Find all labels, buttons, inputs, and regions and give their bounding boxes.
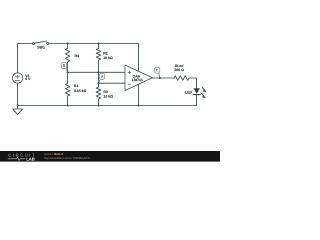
wire left rail bottom — [17, 83, 19, 106]
LED emission arrow 2 — [202, 94, 205, 97]
svg-text:R2: R2 — [103, 51, 108, 55]
junction R2 top — [98, 43, 100, 45]
probe B — [61, 63, 66, 69]
switch SW1 — [33, 43, 35, 45]
svg-text:LAB: LAB — [26, 157, 35, 162]
CircuitLab logo — [8, 152, 36, 161]
wire top rail — [49, 44, 139, 72]
svg-text:0.15 kΩ: 0.15 kΩ — [74, 89, 87, 93]
svg-text:266 Ω: 266 Ω — [174, 68, 184, 72]
op-amp U1 triangle — [125, 65, 153, 91]
junction R1 bottom — [67, 105, 69, 107]
resistor R4 — [65, 44, 70, 73]
watermark bar — [0, 151, 220, 162]
junction R4 top — [67, 43, 69, 45]
junction opamp V- bottom — [138, 105, 140, 107]
junction R3 bottom — [98, 105, 100, 107]
probe B tail — [66, 68, 67, 72]
probe C — [155, 67, 160, 73]
resistor R2 — [96, 44, 101, 84]
voltage source V1 — [12, 73, 22, 83]
svg-text:R1: R1 — [74, 84, 79, 88]
svg-text:SW1: SW1 — [37, 46, 45, 50]
svg-text:LED: LED — [185, 91, 192, 95]
junction ground — [17, 105, 19, 107]
ground — [13, 106, 23, 115]
resistor R1 — [65, 72, 70, 105]
probe C tail — [159, 73, 160, 78]
resistor R3 — [96, 83, 101, 105]
junction node1 — [67, 71, 69, 73]
probe A — [99, 73, 104, 79]
wire node1 to op-amp + — [68, 71, 125, 73]
svg-text:R4: R4 — [75, 54, 80, 58]
op-amp minus sign — [128, 83, 131, 85]
svg-text:LM741: LM741 — [132, 78, 143, 82]
wire left rail top — [18, 44, 33, 74]
probe A tail — [99, 79, 101, 83]
op-amp plus sign — [128, 71, 131, 74]
wire node2 to op-amp - — [99, 82, 126, 84]
LED emission arrow 1 — [202, 88, 205, 91]
svg-text:10 kΩ: 10 kΩ — [103, 95, 113, 99]
svg-text:http://circuitlab.com/c/77b5b3: http://circuitlab.com/c/77b5b3kp4v5m — [44, 156, 91, 160]
LED D1 — [194, 88, 200, 93]
wire op-amp output — [153, 77, 175, 79]
junction node2 lower — [98, 82, 100, 84]
wire bottom rail — [18, 105, 197, 107]
junction node2 cross — [98, 71, 100, 73]
wire LED to bottom rail — [196, 95, 198, 105]
svg-text:R3: R3 — [103, 90, 108, 94]
wire op-amp V- to bottom rail — [138, 84, 140, 105]
resistor RLed — [174, 76, 197, 89]
svg-text:6 V: 6 V — [25, 77, 31, 81]
junction output — [159, 77, 161, 79]
svg-text:10 kΩ: 10 kΩ — [103, 56, 113, 60]
